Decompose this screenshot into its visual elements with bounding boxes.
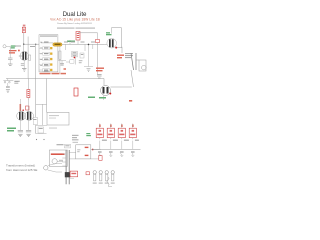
svg-text:Vox AC-15 Like plus 18W Lite 1: Vox AC-15 Like plus 18W Lite 1B (50, 18, 100, 22)
svg-text:Drawn By Steve Luckey 02/16/20: Drawn By Steve Luckey 02/16/2011 (57, 22, 92, 25)
svg-text:Transformers (limited): Transformers (limited) (6, 164, 35, 168)
svg-text:from Hammond 125 SE: from Hammond 125 SE (6, 168, 37, 172)
